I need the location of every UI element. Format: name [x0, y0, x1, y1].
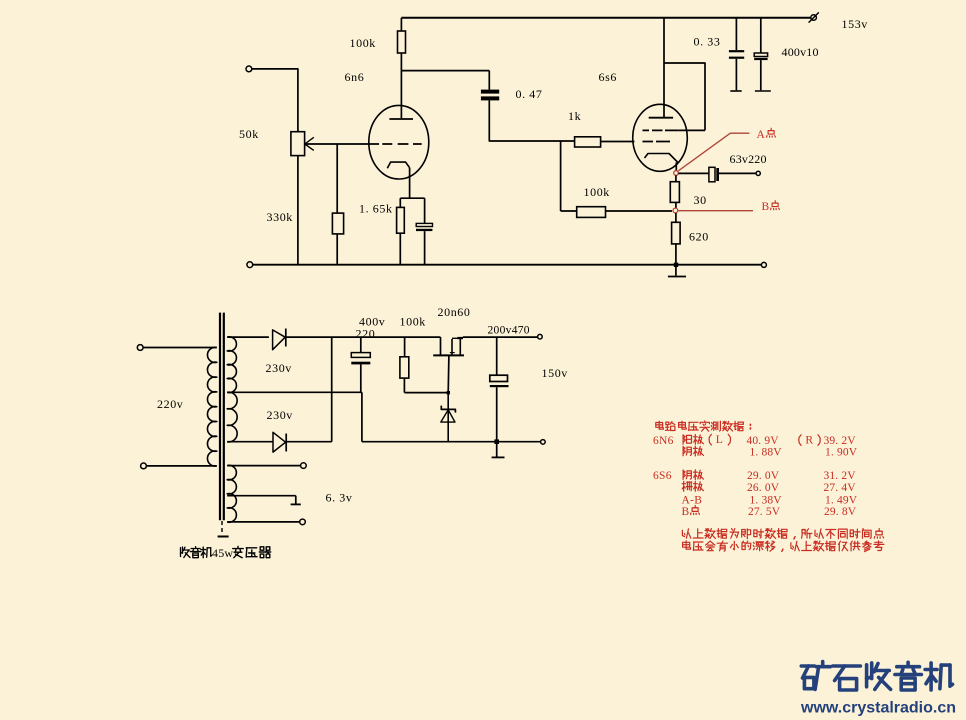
wire cathode node [400, 197, 424, 199]
svg-text:R: R [805, 434, 813, 447]
potentiometer 50k [291, 132, 305, 156]
svg-text:29. 0V: 29. 0V [747, 470, 780, 482]
svg-text:1k: 1k [568, 109, 581, 123]
resistor 100k regulator gate [404, 337, 406, 357]
node A junction [674, 171, 679, 176]
wire bypass cap bottom lead [424, 231, 426, 265]
svg-text:B: B [682, 506, 690, 518]
terminal ground bus right [761, 262, 766, 267]
svg-text:100k: 100k [350, 36, 376, 50]
wire coupling cap bottom lead [489, 100, 574, 141]
junction dot 0v rail [494, 439, 499, 444]
wire pot bottom lead [297, 156, 299, 265]
table note line 2 [685, 541, 687, 549]
terminal filament bottom [300, 519, 306, 525]
leader line node B [678, 210, 753, 212]
terminal 153v connector [811, 15, 817, 21]
tube V2 plate [649, 117, 673, 119]
terminal 0v output [541, 440, 546, 445]
svg-text:29. 8V: 29. 8V [824, 506, 857, 518]
wire B+ top rail [401, 17, 811, 19]
wire HV center tap [227, 391, 362, 393]
junction dot gate node [447, 391, 450, 394]
zener diode regulator reference [447, 393, 449, 442]
terminal 150v output [538, 334, 543, 339]
terminal input bottom [247, 262, 253, 268]
svg-text:1. 49V: 1. 49V [825, 494, 858, 506]
svg-text:45w: 45w [212, 546, 233, 560]
wire input to pot [252, 69, 298, 132]
transformer HV secondary upper [227, 337, 236, 393]
svg-text:63v220: 63v220 [730, 152, 767, 166]
wire 0v rail [362, 441, 541, 443]
ground symbol main [675, 267, 677, 276]
svg-text:230v: 230v [266, 361, 292, 375]
wire screen branch [664, 63, 705, 130]
svg-text:26. 0V: 26. 0V [747, 482, 780, 494]
wire HV top lead [227, 336, 269, 338]
terminal input top [246, 66, 252, 72]
ground symbol PSU [496, 444, 498, 457]
svg-text:200v470: 200v470 [488, 325, 530, 337]
wire gate node line [404, 392, 448, 394]
svg-text:620: 620 [689, 230, 709, 244]
table row 6S6 screen [683, 481, 685, 491]
svg-text:400v10: 400v10 [782, 45, 819, 59]
tube V1 grid dashed [382, 143, 421, 145]
svg-text:1. 90V: 1. 90V [825, 447, 858, 459]
wire output cap to terminal [719, 172, 756, 174]
svg-text:6S6: 6S6 [653, 470, 672, 482]
transistor Q1 20n60 MOSFET [440, 337, 442, 355]
svg-text:L: L [716, 433, 723, 446]
wire ground bus rail [253, 264, 762, 266]
resistor 1k grid stopper [575, 137, 601, 147]
tube V1 6n6 envelope [369, 105, 429, 179]
wire 1k to grid [601, 141, 635, 143]
svg-text:0. 33: 0. 33 [694, 35, 721, 49]
capacitor 0.47 coupling [481, 90, 499, 94]
capacitor 200v470 output filter electrolytic [496, 337, 498, 375]
svg-text:www.crystalradio.cn: www.crystalradio.cn [800, 700, 956, 717]
svg-text:27. 4V: 27. 4V [824, 482, 857, 494]
svg-text:20n60: 20n60 [438, 305, 471, 319]
tube V2 cathode [645, 154, 678, 163]
capacitor cathode bypass electrolytic [416, 223, 432, 226]
wire 100k bottom lead [400, 53, 402, 71]
tube V1 cathode lead [409, 168, 411, 199]
svg-text:1. 38V: 1. 38V [750, 494, 783, 506]
terminal primary bottom [141, 463, 147, 469]
potentiometer wiper arrow [305, 137, 314, 150]
ground symbol filament center tap [291, 503, 301, 505]
svg-text:100k: 100k [400, 315, 426, 329]
wire 330k bottom lead [336, 234, 338, 265]
wire MOSFET source lead [447, 355, 450, 392]
svg-text:B: B [762, 201, 770, 213]
junction dot ground bus [674, 263, 678, 267]
diode D2 rectifier [273, 432, 286, 452]
terminal primary top [137, 345, 143, 351]
wire 100k top lead [400, 18, 402, 31]
svg-text:A: A [757, 129, 766, 141]
wire 620 bottom lead [675, 244, 677, 265]
svg-text:40. 9V: 40. 9V [747, 435, 780, 447]
resistor 30 cathode [670, 182, 679, 203]
tube V2 plate lead [663, 18, 665, 118]
svg-text:50k: 50k [239, 127, 259, 141]
svg-text:31. 2V: 31. 2V [824, 470, 857, 482]
svg-text:6. 3v: 6. 3v [326, 491, 353, 505]
svg-text:27. 5V: 27. 5V [748, 506, 781, 518]
diode D1 rectifier [273, 330, 286, 350]
wire node A to output cap [678, 172, 709, 174]
tube V1 cathode [387, 162, 409, 168]
wire B+ rail lower [286, 336, 441, 338]
resistor 100k plate load V1 [398, 31, 406, 53]
svg-text:6N6: 6N6 [653, 435, 674, 447]
wire to 100k grid resistor [561, 210, 577, 212]
transformer HV secondary lower [227, 392, 237, 442]
wire B+ rail right of MOSFET [463, 336, 538, 338]
svg-text:150v: 150v [542, 366, 568, 380]
wire 30 bottom lead [675, 202, 677, 208]
svg-text:A-B: A-B [682, 494, 703, 506]
wire filament bottom lead [227, 521, 300, 523]
wire primary top lead [143, 347, 217, 349]
transformer primary winding [207, 347, 216, 466]
wire bypass cap top lead [424, 198, 426, 223]
capacitor 0.33 [735, 18, 737, 50]
wire primary bottom lead [146, 465, 216, 467]
capacitor 400v10 electrolytic [760, 18, 762, 53]
svg-text:0. 47: 0. 47 [516, 87, 543, 101]
svg-text:100k: 100k [584, 185, 610, 199]
terminal filament top [301, 463, 307, 469]
watermark logo text [801, 664, 814, 668]
svg-text:1. 88V: 1. 88V [750, 447, 783, 459]
wire grid leak drop [560, 141, 562, 211]
svg-text:153v: 153v [842, 17, 868, 31]
wire plate node to coupling cap [401, 70, 489, 72]
tube V2 6s6 envelope [633, 104, 688, 171]
node B junction [673, 208, 678, 213]
wire filament center tap [227, 495, 296, 497]
svg-text:6n6: 6n6 [345, 70, 365, 84]
wire grid to 330k [336, 144, 338, 213]
resistor 100k grid leak V2 [577, 207, 606, 218]
transformer core [219, 313, 221, 521]
wire wiper to grid [305, 143, 379, 145]
resistor 1.65k cathode bias [397, 207, 405, 233]
resistor 620 cathode [672, 222, 681, 244]
wire HV bottom lead [227, 441, 273, 443]
svg-text:220v: 220v [157, 397, 183, 411]
svg-text:1. 65k: 1. 65k [359, 202, 393, 216]
resistor 330k grid leak V1 [332, 213, 343, 234]
transformer core ground [221, 521, 223, 535]
tube V2 screen grid dashed [643, 129, 679, 131]
wire screen tap [679, 129, 705, 131]
svg-text:6s6: 6s6 [599, 70, 617, 84]
svg-text:39. 2V: 39. 2V [824, 435, 857, 447]
tube V2 control grid dashed [643, 141, 671, 143]
wire 30 top lead [675, 175, 677, 181]
terminal output [756, 171, 760, 175]
svg-text:220: 220 [356, 326, 376, 340]
wire 1.65k bottom lead [399, 233, 401, 265]
wire 100k to node B [606, 210, 673, 212]
transformer filament winding [227, 465, 236, 522]
tube V1 plate [389, 118, 413, 120]
wire 620 top lead [675, 213, 677, 222]
wire center tap drop to 0v [361, 392, 363, 441]
table note line 1 [682, 530, 684, 536]
tube V2 cathode lead [675, 162, 677, 170]
wire 1.65k top lead [399, 198, 401, 207]
wire coupling cap top lead [488, 71, 490, 90]
svg-text:230v: 230v [267, 408, 293, 422]
label transformer caption [180, 548, 182, 557]
capacitor 63v220 output electrolytic [709, 167, 715, 182]
svg-text:330k: 330k [267, 210, 293, 224]
tube V1 plate lead [400, 71, 402, 119]
wire filament top lead [227, 465, 300, 467]
svg-text:30: 30 [694, 193, 707, 207]
capacitor 400v220 filter electrolytic [360, 337, 362, 353]
leader line node A [678, 133, 749, 171]
table row 6N6 cathode [682, 446, 684, 455]
wire D2 to B+ riser [286, 441, 332, 443]
table title voltage data [658, 421, 660, 429]
